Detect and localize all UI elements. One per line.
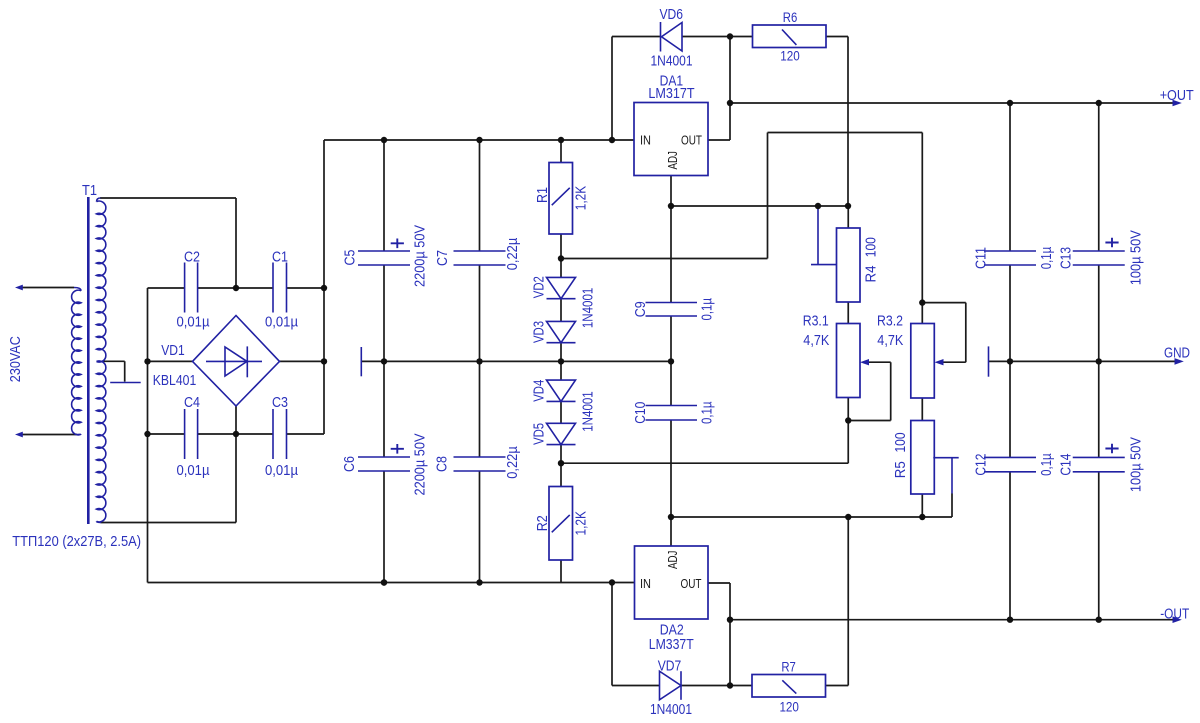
- svg-text:OUT: OUT: [681, 134, 702, 148]
- svg-text:R2: R2: [535, 515, 551, 531]
- svg-text:1,2K: 1,2K: [574, 185, 590, 210]
- svg-text:C2: C2: [184, 250, 200, 266]
- svg-text:120: 120: [780, 48, 800, 63]
- svg-text:0,22µ: 0,22µ: [505, 446, 521, 479]
- svg-text:230VAC: 230VAC: [8, 336, 24, 382]
- svg-text:IN: IN: [640, 134, 651, 148]
- svg-text:0,1µ: 0,1µ: [700, 401, 716, 424]
- svg-text:2200µ 50V: 2200µ 50V: [413, 433, 429, 495]
- svg-text:C4: C4: [184, 395, 200, 411]
- svg-text:R6: R6: [783, 10, 798, 25]
- svg-text:C13: C13: [1058, 247, 1074, 269]
- svg-text:1N4001: 1N4001: [651, 54, 693, 70]
- svg-text:0,1µ: 0,1µ: [1039, 453, 1055, 476]
- svg-text:OUT: OUT: [681, 577, 702, 591]
- svg-text:C11: C11: [973, 247, 989, 269]
- svg-text:VD5: VD5: [532, 423, 548, 445]
- svg-text:1N4001: 1N4001: [650, 702, 692, 718]
- svg-text:LM317T: LM317T: [648, 86, 694, 102]
- svg-text:R5: R5: [893, 461, 909, 478]
- svg-text:LM337T: LM337T: [649, 637, 694, 653]
- svg-text:R3.1: R3.1: [803, 314, 829, 330]
- svg-text:VD2: VD2: [532, 276, 548, 298]
- svg-text:VD6: VD6: [660, 7, 684, 23]
- svg-text:C14: C14: [1058, 454, 1074, 476]
- svg-text:C3: C3: [272, 395, 288, 411]
- svg-text:C9: C9: [633, 301, 649, 317]
- svg-text:-OUT: -OUT: [1160, 607, 1189, 623]
- svg-text:VD1: VD1: [161, 343, 185, 359]
- svg-text:0,01µ: 0,01µ: [177, 315, 211, 331]
- svg-text:R3.2: R3.2: [877, 314, 903, 330]
- svg-text:120: 120: [779, 700, 799, 715]
- svg-text:R7: R7: [781, 659, 796, 674]
- svg-text:2200µ 50V: 2200µ 50V: [413, 225, 429, 287]
- svg-text:100: 100: [863, 237, 879, 257]
- svg-text:0,01µ: 0,01µ: [265, 463, 299, 479]
- svg-text:ADJ: ADJ: [666, 151, 680, 170]
- svg-text:1N4001: 1N4001: [581, 391, 597, 432]
- svg-text:100µ 50V: 100µ 50V: [1128, 230, 1144, 285]
- svg-text:0,01µ: 0,01µ: [265, 315, 299, 331]
- svg-text:1N4001: 1N4001: [581, 288, 597, 329]
- svg-text:100µ 50V: 100µ 50V: [1128, 437, 1144, 492]
- svg-text:IN: IN: [640, 577, 651, 591]
- svg-text:C8: C8: [434, 456, 450, 472]
- svg-text:0,1µ: 0,1µ: [700, 297, 716, 320]
- svg-text:+OUT: +OUT: [1160, 88, 1194, 104]
- svg-text:C6: C6: [342, 456, 358, 472]
- svg-text:T1: T1: [82, 183, 97, 199]
- svg-text:0,1µ: 0,1µ: [1039, 246, 1055, 269]
- svg-text:0,01µ: 0,01µ: [177, 463, 211, 479]
- svg-text:1,2K: 1,2K: [574, 511, 590, 536]
- svg-text:C7: C7: [435, 250, 451, 266]
- svg-text:0,22µ: 0,22µ: [505, 237, 521, 270]
- svg-text:C5: C5: [342, 250, 358, 266]
- svg-text:ТТП120 (2х27В, 2.5А): ТТП120 (2х27В, 2.5А): [12, 534, 141, 550]
- svg-text:4,7K: 4,7K: [877, 333, 903, 349]
- svg-text:VD7: VD7: [658, 658, 682, 674]
- svg-text:4,7K: 4,7K: [803, 333, 829, 349]
- svg-text:C12: C12: [973, 454, 989, 476]
- svg-text:GND: GND: [1164, 346, 1190, 362]
- svg-text:100: 100: [893, 433, 909, 453]
- svg-text:VD4: VD4: [532, 380, 548, 402]
- svg-text:C1: C1: [272, 250, 288, 266]
- svg-text:ADJ: ADJ: [666, 551, 680, 570]
- svg-text:R1: R1: [535, 187, 551, 203]
- svg-text:VD3: VD3: [532, 321, 548, 343]
- svg-text:C10: C10: [633, 402, 649, 424]
- svg-text:KBL401: KBL401: [153, 373, 197, 389]
- svg-text:R4: R4: [863, 266, 879, 283]
